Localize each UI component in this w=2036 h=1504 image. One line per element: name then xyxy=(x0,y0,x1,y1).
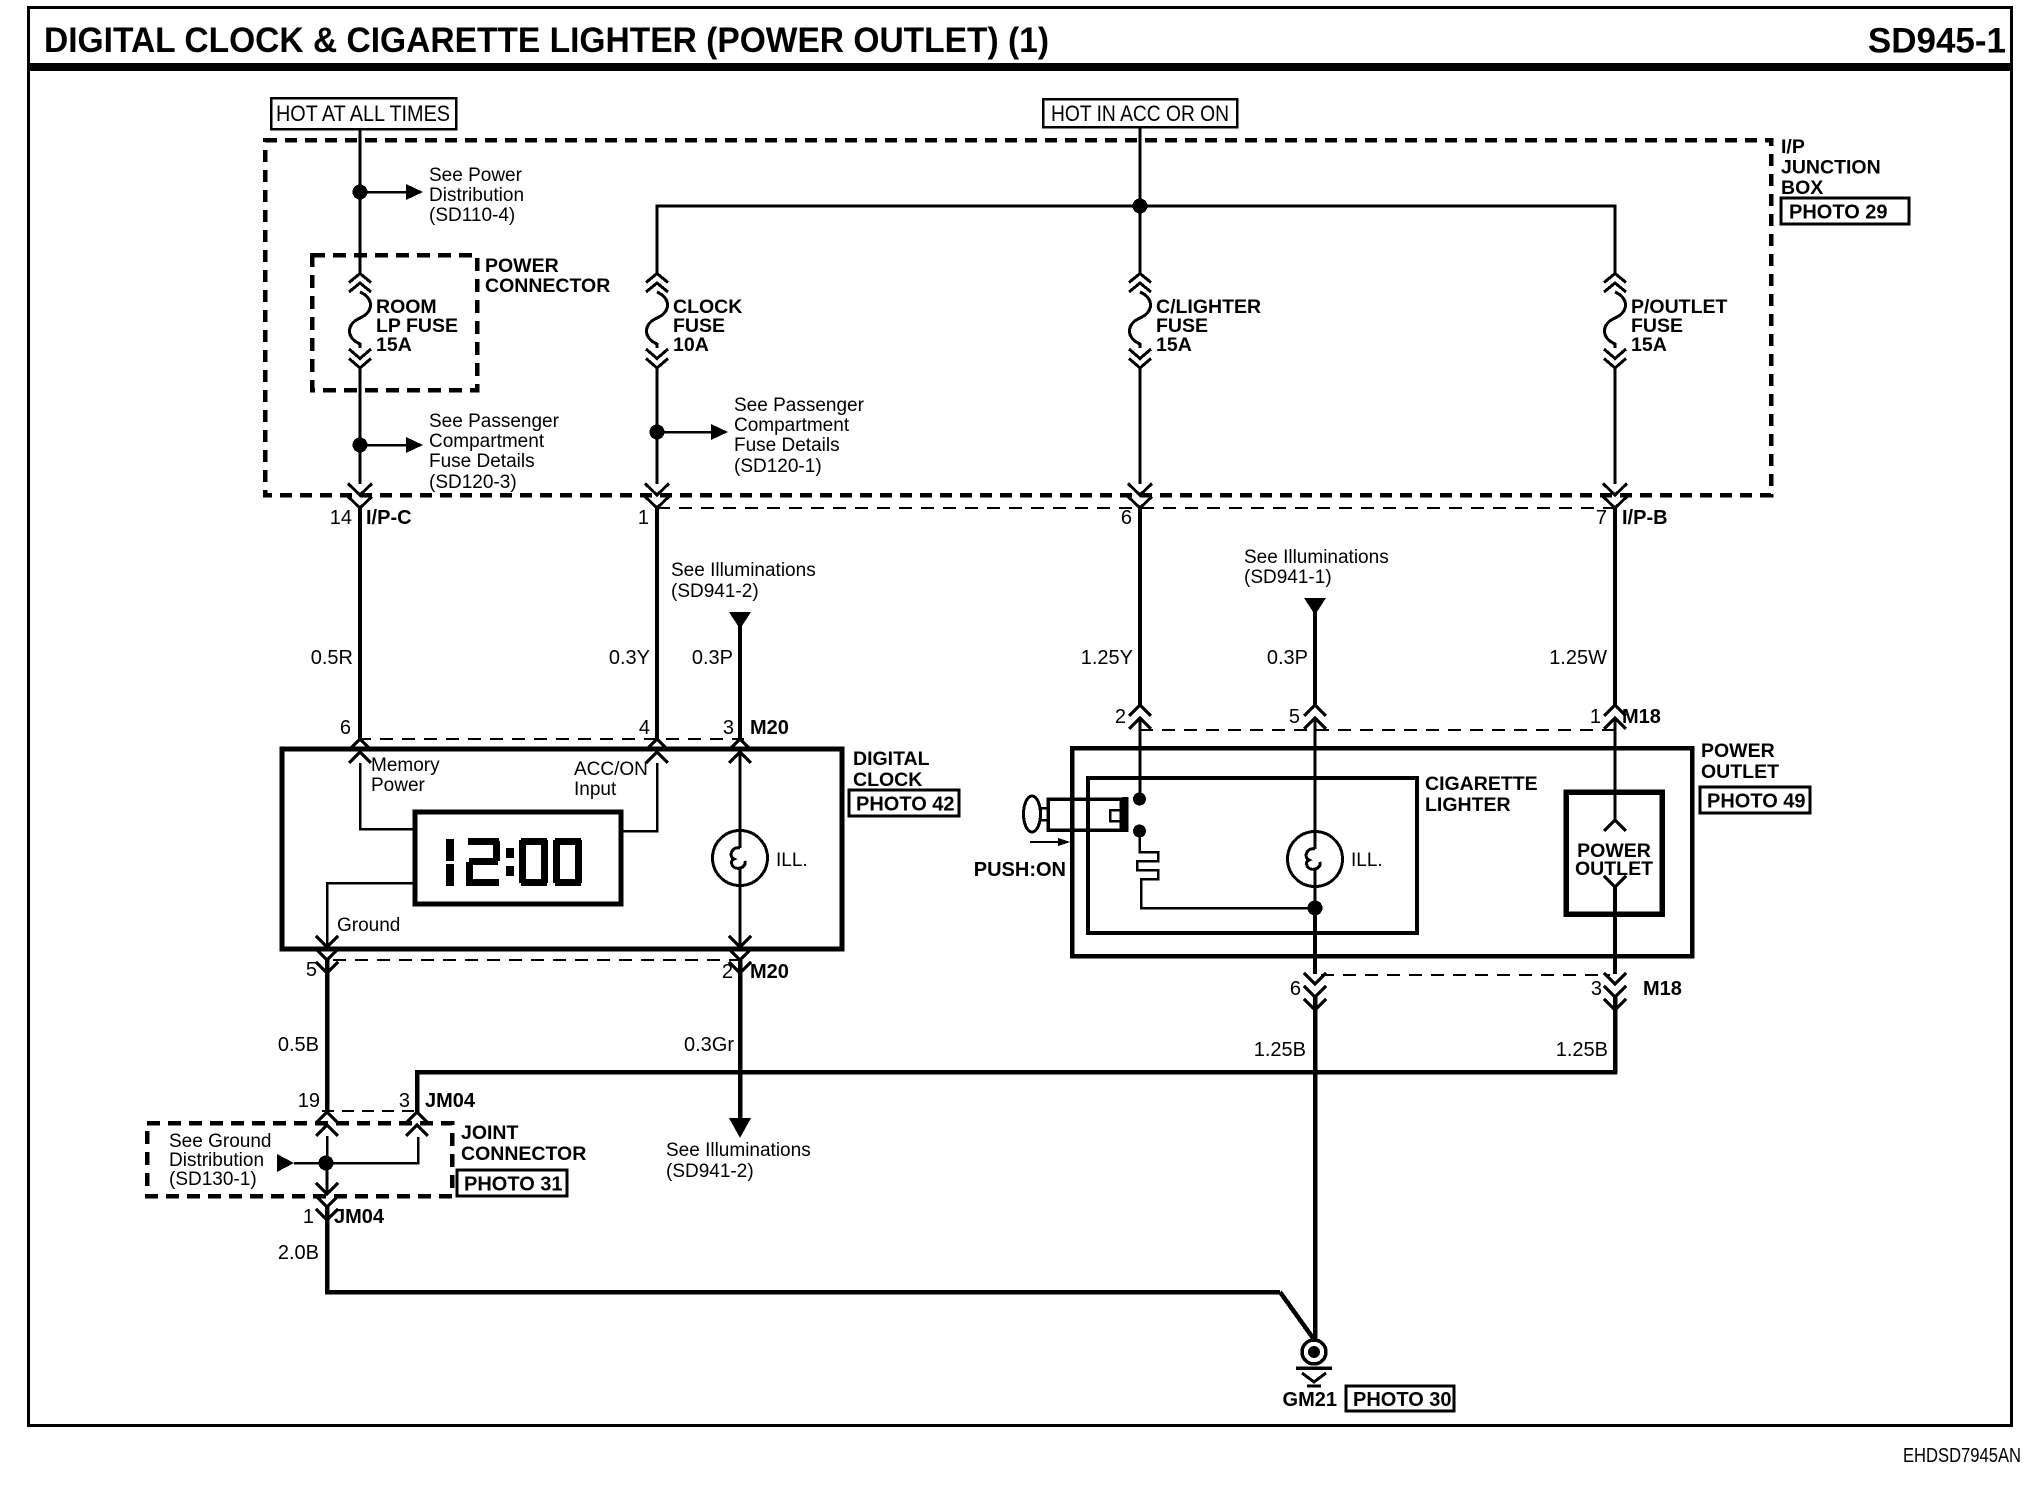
svg-text:15A: 15A xyxy=(1156,334,1192,356)
wire 1.25Y: pin 6 down to lighter pin 2 xyxy=(1138,508,1142,706)
svg-text:PHOTO 29: PHOTO 29 xyxy=(1789,202,1888,224)
node: upper contact xyxy=(1133,793,1146,806)
svg-text:See Ground: See Ground xyxy=(169,1131,271,1152)
wire: clock ground xyxy=(327,883,415,946)
wire 0.5B: clock ground down to JM04 pin 19 xyxy=(325,960,330,1113)
lighter plug body xyxy=(1048,799,1121,830)
svg-text:5: 5 xyxy=(1289,706,1300,728)
ground distribution arrow xyxy=(277,1154,294,1172)
svg-text:JM04: JM04 xyxy=(334,1206,385,1228)
connector line I/P (thin dashed) xyxy=(657,507,1615,509)
pin 1 JM04 xyxy=(303,1183,385,1228)
arrow: see power distribution xyxy=(360,184,423,200)
svg-text:JOINT: JOINT xyxy=(461,1122,519,1144)
svg-text:ACC/ON: ACC/ON xyxy=(574,759,648,780)
POWER OUTLET assembly box xyxy=(1072,748,1692,956)
svg-text:0.3P: 0.3P xyxy=(692,647,733,669)
7-segment digit 1 xyxy=(446,839,454,886)
pin 6 I/P xyxy=(1121,484,1152,530)
illumination output arrowhead xyxy=(729,1118,751,1138)
connector JM04 line (thin dashed) xyxy=(322,1110,420,1112)
lighter contact bar xyxy=(1122,797,1129,832)
I/P junction box (dashed) xyxy=(265,140,1771,495)
svg-text:7: 7 xyxy=(1596,507,1607,529)
wire: diagonal to ground point xyxy=(1280,1292,1313,1338)
svg-text:CLOCK: CLOCK xyxy=(853,769,922,791)
svg-text:ILL.: ILL. xyxy=(1351,850,1383,871)
wire: joint connector internal links xyxy=(294,1136,418,1163)
push-on arrow xyxy=(1030,838,1070,846)
svg-text:(SD110-4): (SD110-4) xyxy=(429,205,515,226)
svg-text:PUSH:ON: PUSH:ON xyxy=(974,859,1066,881)
svg-text:CIGARETTE: CIGARETTE xyxy=(1425,773,1538,795)
pin 5 M18 xyxy=(1289,705,1326,729)
wire: outlet ground down xyxy=(1613,887,1617,974)
arrow: see passenger fuse details (clock) xyxy=(657,424,728,440)
svg-text:0.5R: 0.5R xyxy=(311,647,353,669)
svg-text:M20: M20 xyxy=(750,961,789,983)
wire: ACC/ON input into clock display xyxy=(621,763,657,831)
node: power distribution tap xyxy=(353,185,368,200)
node: joint connector junction xyxy=(319,1156,334,1171)
svg-text:1: 1 xyxy=(303,1206,314,1228)
svg-text:JUNCTION: JUNCTION xyxy=(1781,157,1881,179)
ground bus wire xyxy=(417,1072,1617,1113)
svg-text:M18: M18 xyxy=(1643,978,1682,1000)
lighter plug knob xyxy=(1024,796,1041,832)
svg-text:Distribution: Distribution xyxy=(169,1150,264,1171)
arrow: see passenger fuse details (left) xyxy=(360,437,423,453)
svg-text:M18: M18 xyxy=(1622,706,1661,728)
svg-text:1: 1 xyxy=(638,507,649,529)
svg-text:5: 5 xyxy=(306,959,317,981)
svg-text:19: 19 xyxy=(298,1090,320,1112)
wire 0.5R: pin 14 down to clock pin 6 xyxy=(358,508,362,740)
svg-text:POWER: POWER xyxy=(485,255,559,277)
POWER CONNECTOR label xyxy=(485,255,610,297)
wire: lighter ground down xyxy=(1313,908,1317,974)
wire 1.25B: outlet ground down to bus xyxy=(1613,997,1618,1074)
wire: ACC distribution rail xyxy=(657,206,1615,273)
svg-text:PHOTO 49: PHOTO 49 xyxy=(1707,791,1806,813)
svg-text:Compartment: Compartment xyxy=(734,415,850,436)
svg-text:3: 3 xyxy=(1591,978,1602,1000)
pin 2 M18 xyxy=(1115,705,1151,729)
node: lighter ground junction xyxy=(1308,901,1323,916)
fuse: P/OUTLET FUSE 15A xyxy=(1604,274,1626,369)
svg-text:DIGITAL CLOCK & CIGARETTE LIGH: DIGITAL CLOCK & CIGARETTE LIGHTER (POWER… xyxy=(44,21,1049,60)
wire: HOT AT ALL TIMES feed down to ROOM LP FUSE xyxy=(359,129,362,273)
svg-text:SD945-1: SD945-1 xyxy=(1868,22,2006,61)
svg-text:BOX: BOX xyxy=(1781,177,1823,199)
7-segment digit 0 (first) xyxy=(519,838,548,886)
svg-text:CONNECTOR: CONNECTOR xyxy=(461,1143,586,1165)
node: ACC rail junction xyxy=(1133,199,1148,214)
connector M20 bottom line (thin dashed) xyxy=(333,959,744,961)
clock display window xyxy=(415,812,621,904)
svg-text:0.5B: 0.5B xyxy=(278,1034,319,1056)
svg-text:Compartment: Compartment xyxy=(429,431,545,452)
HOT IN ACC OR ON label box xyxy=(1043,99,1237,127)
PHOTO 31 box xyxy=(457,1170,567,1196)
illumination feed arrow into pin 3 xyxy=(729,612,751,629)
label POWER OUTLET (assembly) xyxy=(1701,740,1779,783)
svg-text:0.3Y: 0.3Y xyxy=(609,647,650,669)
ground GM21 symbol xyxy=(1296,1340,1332,1386)
svg-text:10A: 10A xyxy=(673,334,709,356)
wire: lighter supply into contact xyxy=(1139,718,1142,799)
pin 19 JM04 xyxy=(298,1090,338,1136)
svg-text:6: 6 xyxy=(340,717,351,739)
pin 6 M20 xyxy=(340,717,371,763)
wire 0.3P: illumination feed to clock pin 3 xyxy=(738,625,742,740)
note: See Passenger Compartment Fuse Details (SD120-3) xyxy=(429,411,560,493)
svg-text:Memory: Memory xyxy=(371,755,440,776)
label Memory Power xyxy=(371,755,440,796)
svg-text:JM04: JM04 xyxy=(425,1090,476,1112)
svg-text:0.3Gr: 0.3Gr xyxy=(684,1034,734,1056)
svg-text:See Passenger: See Passenger xyxy=(734,395,865,416)
svg-text:Ground: Ground xyxy=(337,915,400,936)
svg-text:1.25W: 1.25W xyxy=(1549,647,1607,669)
svg-text:OUTLET: OUTLET xyxy=(1701,761,1779,783)
svg-text:POWER: POWER xyxy=(1701,740,1775,762)
svg-text:2.0B: 2.0B xyxy=(278,1242,319,1264)
note: See Power Distribution (SD110-4) xyxy=(429,165,524,226)
title separator bar xyxy=(27,63,2012,71)
svg-text:PHOTO 31: PHOTO 31 xyxy=(464,1174,563,1196)
svg-text:4: 4 xyxy=(639,717,650,739)
bulb ILL (clock) xyxy=(713,749,768,946)
wire: outlet feed through small box xyxy=(1614,718,1617,820)
label CIGARETTE LIGHTER xyxy=(1425,773,1538,816)
DIGITAL CLOCK box xyxy=(282,749,842,949)
svg-text:M20: M20 xyxy=(750,717,789,739)
node: fuse details tap (left) xyxy=(353,438,368,453)
PHOTO 30 box xyxy=(1346,1386,1454,1411)
svg-text:I/P-B: I/P-B xyxy=(1622,507,1668,529)
svg-text:(SD941-2): (SD941-2) xyxy=(671,581,759,602)
wire 1.25B: lighter ground down to GM21 xyxy=(1313,997,1318,1340)
svg-text:1.25B: 1.25B xyxy=(1254,1039,1306,1061)
svg-text:See Illuminations: See Illuminations xyxy=(1244,547,1389,568)
svg-text:6: 6 xyxy=(1121,507,1132,529)
7-segment digit 0 (second) xyxy=(553,838,582,886)
label JOINT CONNECTOR xyxy=(461,1122,586,1165)
svg-text:LIGHTER: LIGHTER xyxy=(1425,794,1511,816)
svg-text:(SD120-1): (SD120-1) xyxy=(734,456,822,477)
svg-text:(SD941-1): (SD941-1) xyxy=(1244,567,1332,588)
svg-text:HOT IN ACC OR ON: HOT IN ACC OR ON xyxy=(1051,101,1229,126)
svg-text:See Power: See Power xyxy=(429,165,523,186)
svg-text:0.3P: 0.3P xyxy=(1267,647,1308,669)
svg-text:PHOTO 42: PHOTO 42 xyxy=(856,794,955,816)
pin 2 M20 bottom xyxy=(722,961,789,983)
svg-text:DIGITAL: DIGITAL xyxy=(853,748,930,770)
svg-text:See Illuminations: See Illuminations xyxy=(671,560,816,581)
pin 1 M18 xyxy=(1590,705,1661,729)
svg-text:6: 6 xyxy=(1290,978,1301,1000)
lighter contact bracket xyxy=(1110,810,1122,821)
label POWER OUTLET (inner) xyxy=(1575,840,1653,880)
pin 1 I/P xyxy=(638,484,669,530)
illumination feed arrow into pin 5 xyxy=(1304,598,1326,615)
svg-text:Fuse Details: Fuse Details xyxy=(734,435,840,456)
pin 3 M18 bottom xyxy=(1591,973,1682,1010)
PHOTO 49 box xyxy=(1700,787,1810,813)
connector M18 line (thin dashed) xyxy=(1140,729,1617,731)
pin 7 I/P-B xyxy=(1596,484,1668,530)
note: See Illuminations (SD941-1) xyxy=(1244,547,1389,588)
svg-text:CONNECTOR: CONNECTOR xyxy=(485,275,610,297)
node: fuse details tap (clock) xyxy=(650,425,665,440)
pin 3 JM04 xyxy=(399,1090,476,1136)
svg-text:I/P-C: I/P-C xyxy=(366,507,412,529)
POWER OUTLET small box xyxy=(1566,792,1662,914)
svg-text:(SD941-2): (SD941-2) xyxy=(666,1161,754,1182)
PHOTO 42 box xyxy=(849,790,959,816)
wire 0.3Gr: illumination output down xyxy=(738,960,743,1121)
fuse: C/LIGHTER FUSE 15A xyxy=(1129,274,1151,369)
svg-text:Input: Input xyxy=(574,779,617,800)
svg-text:(SD130-1): (SD130-1) xyxy=(169,1169,257,1190)
svg-text:15A: 15A xyxy=(1631,334,1667,356)
wire: memory power into clock display xyxy=(360,763,415,829)
lighter plug neck xyxy=(1040,808,1048,820)
wire 1.25W: pin 7 down to outlet pin 1 xyxy=(1613,508,1617,706)
svg-text:GM21: GM21 xyxy=(1283,1389,1337,1411)
svg-text:15A: 15A xyxy=(376,334,412,356)
CIGARETTE LIGHTER box xyxy=(1088,778,1417,933)
svg-text:PHOTO 30: PHOTO 30 xyxy=(1353,1389,1452,1411)
fuse: ROOM LP FUSE 15A xyxy=(349,274,371,369)
svg-text:1.25Y: 1.25Y xyxy=(1081,647,1133,669)
7-segment digit 2 xyxy=(466,838,500,886)
svg-text:See Passenger: See Passenger xyxy=(429,411,560,432)
note: See Ground Distribution (SD130-1) xyxy=(169,1131,271,1190)
POWER CONNECTOR box (dashed) xyxy=(312,255,477,390)
svg-text:Power: Power xyxy=(371,775,426,796)
svg-text:2: 2 xyxy=(722,961,733,983)
wire: CLOCK FUSE output to pin 1 xyxy=(656,368,659,484)
label DIGITAL CLOCK xyxy=(853,748,930,791)
pin 3 M20 xyxy=(723,717,789,763)
svg-text:3: 3 xyxy=(723,717,734,739)
svg-text:1.25B: 1.25B xyxy=(1556,1039,1608,1061)
heating element xyxy=(1137,837,1314,908)
svg-text:1: 1 xyxy=(1590,706,1601,728)
label ACC/ON Input xyxy=(574,759,648,800)
svg-text:HOT AT ALL TIMES: HOT AT ALL TIMES xyxy=(276,101,450,126)
connector M18 bottom line (thin dashed) xyxy=(1321,974,1610,976)
svg-text:Distribution: Distribution xyxy=(429,185,524,206)
node: lower contact xyxy=(1133,825,1146,838)
svg-text:14: 14 xyxy=(330,507,352,529)
clock pin 2 exit arrowhead xyxy=(729,936,751,960)
pin 14 I/P-C xyxy=(330,484,412,530)
note: See Illuminations (SD941-2) upper xyxy=(671,560,816,602)
svg-text:See Illuminations: See Illuminations xyxy=(666,1140,811,1161)
power outlet internal chevrons xyxy=(1604,820,1626,887)
svg-text:3: 3 xyxy=(399,1090,410,1112)
svg-text:EHDSD7945AN: EHDSD7945AN xyxy=(1903,1445,2021,1467)
svg-text:OUTLET: OUTLET xyxy=(1575,858,1653,880)
note: See Passenger Compartment Fuse Details (SD120-1) xyxy=(734,395,865,477)
wire 0.3Y: pin 1 down to clock pin 4 xyxy=(655,508,659,740)
wire 0.3P: illumination feed to lighter pin 5 xyxy=(1313,612,1317,706)
note: See Illuminations (SD941-2) lower xyxy=(666,1140,811,1182)
connector M20 line (thin dashed) xyxy=(358,738,744,740)
wire: C/LIGHTER FUSE output to pin 6 xyxy=(1139,368,1142,484)
pin 4 M20 xyxy=(639,717,668,763)
wire: ROOM LP FUSE output to pin 14 xyxy=(359,368,362,484)
clock ground exit arrowhead pin 5 xyxy=(316,936,338,960)
svg-text:I/P: I/P xyxy=(1781,136,1805,158)
colon xyxy=(506,848,514,876)
I/P junction box label xyxy=(1781,136,1881,199)
svg-text:Fuse Details: Fuse Details xyxy=(429,451,535,472)
svg-text:(SD120-3): (SD120-3) xyxy=(429,472,517,493)
wire: P/OUTLET FUSE output to pin 7 xyxy=(1614,368,1617,484)
svg-text:2: 2 xyxy=(1115,706,1126,728)
bulb ILL (lighter) xyxy=(1288,718,1343,901)
pin 6 M18 bottom xyxy=(1290,973,1326,1010)
svg-text:ILL.: ILL. xyxy=(776,850,808,871)
PHOTO 29 box xyxy=(1781,198,1909,224)
fuse: CLOCK FUSE 10A xyxy=(646,274,668,369)
JOINT CONNECTOR box (dashed) xyxy=(147,1123,452,1196)
wire 2.0B: to chassis ground xyxy=(327,1207,1280,1292)
wire: joint connector to pin 1 xyxy=(326,1163,329,1194)
wire: HOT IN ACC OR ON feed down xyxy=(1139,127,1142,273)
HOT AT ALL TIMES label box xyxy=(271,98,456,129)
